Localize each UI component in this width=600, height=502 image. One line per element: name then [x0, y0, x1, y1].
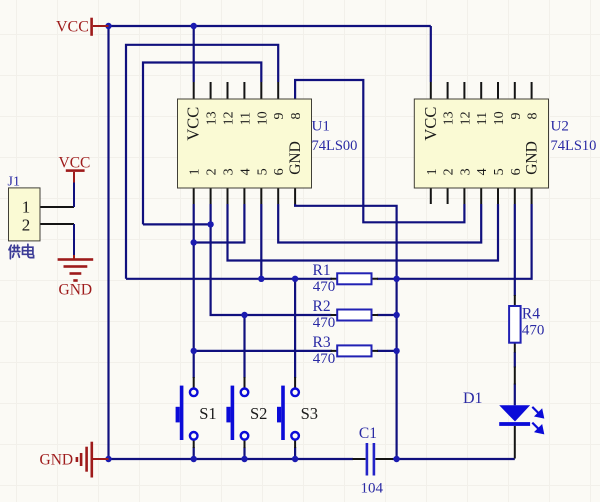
- capacitor C1 leads: [353, 458, 394, 460]
- LED D1 anode lead: [514, 367, 516, 385]
- wire U2 pin6 to R4: [514, 204, 516, 296]
- resistor R3 body: [337, 345, 371, 356]
- svg-text:5: 5: [255, 168, 270, 175]
- node R1 row pin5: [258, 276, 264, 282]
- wire R3 row right: [377, 350, 397, 352]
- svg-text:470: 470: [313, 351, 336, 367]
- wire bottom rail left of C1: [109, 458, 354, 460]
- svg-text:6: 6: [509, 168, 524, 175]
- svg-text:R4: R4: [522, 306, 540, 323]
- IC U2 74LS10 body: [414, 99, 548, 188]
- node R1 row S3: [292, 276, 298, 282]
- svg-text:74LS10: 74LS10: [551, 138, 597, 154]
- node VCC rail / left vertical: [105, 23, 111, 29]
- pushbutton S1: [190, 389, 198, 440]
- U1 top pin stubs: [194, 82, 279, 99]
- svg-text:2: 2: [442, 168, 457, 175]
- R1 leads: [331, 278, 379, 280]
- wire S1 bottom: [193, 447, 195, 459]
- wire pin2 row left: [143, 223, 211, 225]
- U1 pin name texts: [184, 107, 304, 176]
- svg-text:R2: R2: [313, 298, 331, 315]
- LED arrows: [532, 407, 543, 433]
- LED D1 cathode lead: [514, 426, 516, 459]
- svg-text:S3: S3: [301, 404, 318, 423]
- wire R2 row right: [377, 314, 397, 316]
- LED D1: [499, 405, 530, 426]
- svg-text:4: 4: [475, 168, 490, 175]
- svg-text:J1: J1: [8, 175, 20, 190]
- svg-text:1: 1: [188, 168, 203, 175]
- svg-text:GND: GND: [59, 282, 93, 299]
- svg-text:470: 470: [522, 323, 545, 339]
- wire U1 GND to mid column: [295, 204, 397, 459]
- R3 leads: [331, 350, 379, 352]
- node R2 row mid column: [393, 312, 399, 318]
- wire U1 VCC drop: [193, 26, 195, 82]
- svg-text:12: 12: [222, 111, 237, 125]
- S2 stubs: [244, 377, 246, 448]
- node rail / left vertical: [105, 456, 111, 462]
- svg-text:5: 5: [492, 168, 507, 175]
- svg-text:VCC: VCC: [56, 19, 89, 36]
- U1 bottom pin stubs: [194, 188, 295, 204]
- node VCC rail / U1 VCC: [191, 23, 197, 29]
- svg-text:U2: U2: [551, 119, 569, 135]
- U2 pin name texts: [421, 107, 541, 176]
- svg-text:13: 13: [205, 111, 220, 125]
- svg-text:S2: S2: [250, 404, 267, 423]
- svg-text:VCC: VCC: [59, 155, 91, 172]
- label 供电 (hand-drawn): [9, 244, 34, 259]
- R4 leads: [514, 295, 516, 353]
- node R3 row mid column: [393, 348, 399, 354]
- resistor R4 body: [509, 306, 520, 343]
- ground GND bottom-left: [40, 442, 109, 478]
- svg-text:R3: R3: [313, 334, 331, 351]
- svg-text:1: 1: [425, 168, 440, 175]
- svg-text:8: 8: [526, 113, 541, 120]
- wire R1 row left: [126, 278, 332, 280]
- svg-text:11: 11: [238, 112, 253, 125]
- svg-text:74LS00: 74LS00: [312, 138, 358, 154]
- svg-text:R1: R1: [313, 262, 331, 279]
- wire left VCC-to-rail vertical: [107, 26, 109, 459]
- svg-text:D1: D1: [463, 390, 483, 407]
- node pin2 row: [207, 221, 213, 227]
- capacitor C1 plates: [367, 443, 374, 476]
- node R2 row S2: [241, 312, 247, 318]
- wire U1 pin1 column: [193, 204, 195, 378]
- svg-text:470: 470: [313, 279, 336, 295]
- svg-text:4: 4: [238, 168, 253, 175]
- svg-text:1: 1: [22, 198, 31, 217]
- wire R1 row right to U2 GND: [377, 204, 532, 279]
- svg-text:2: 2: [205, 168, 220, 175]
- svg-text:9: 9: [509, 113, 524, 120]
- S3 stubs: [294, 377, 296, 448]
- pushbutton S2: [241, 389, 249, 440]
- svg-text:10: 10: [492, 111, 507, 125]
- svg-text:8: 8: [289, 113, 304, 120]
- svg-text:GND: GND: [40, 452, 74, 469]
- wire R3 row left: [194, 350, 332, 352]
- node R1 row mid column: [393, 276, 399, 282]
- svg-text:2: 2: [22, 216, 31, 235]
- svg-text:U1: U1: [312, 119, 330, 135]
- U2 top pin stubs: [431, 82, 532, 99]
- wire S2 column: [243, 315, 245, 378]
- svg-text:VCC: VCC: [421, 107, 440, 141]
- svg-text:13: 13: [442, 111, 457, 125]
- S1 stubs: [193, 377, 195, 448]
- wire U1 pin3 to U2 pin5: [228, 204, 499, 261]
- node pin1 row: [191, 239, 197, 245]
- node R3 row S1: [191, 348, 197, 354]
- wire S3 column: [294, 279, 296, 378]
- power port VCC at J1: [59, 155, 91, 208]
- svg-text:6: 6: [272, 168, 287, 175]
- svg-text:11: 11: [475, 112, 490, 125]
- LED cathode bar: [499, 422, 530, 426]
- wire U1 pin8 to U2 pin3: [295, 80, 464, 222]
- wire net pin2row to U1 pin10: [143, 63, 261, 225]
- wire bottom rail right of C1: [393, 458, 515, 460]
- wire R4 to LED anode upper: [514, 352, 516, 368]
- resistor R2 body: [337, 310, 371, 321]
- wire U2 VCC drop: [430, 26, 432, 82]
- svg-text:GND: GND: [287, 141, 304, 175]
- node rail / S2: [241, 456, 247, 462]
- R2 leads: [331, 314, 379, 316]
- connector J1 body: [9, 188, 41, 241]
- svg-text:104: 104: [361, 481, 384, 497]
- wire S3 bottom: [294, 447, 296, 459]
- pushbutton S3: [291, 389, 299, 440]
- svg-text:C1: C1: [359, 425, 377, 442]
- node rail / S1: [191, 456, 197, 462]
- node rail / mid column: [393, 456, 399, 462]
- LED triangle: [499, 405, 530, 421]
- wire U1 pin5 drop: [260, 204, 262, 279]
- wire U1 pin6 to U2 pin4: [278, 204, 481, 243]
- J1 pin stubs: [39, 207, 74, 224]
- U2 bottom pin stubs: [431, 188, 532, 204]
- node rail / S3: [292, 456, 298, 462]
- svg-text:9: 9: [272, 113, 287, 120]
- IC U1 74LS00 body: [178, 99, 312, 188]
- wire U1 pin2 column to R2 row: [211, 204, 332, 315]
- wire net R1row to U1 pin9: [126, 45, 278, 279]
- svg-text:470: 470: [313, 315, 336, 331]
- svg-text:3: 3: [458, 168, 473, 175]
- svg-text:GND: GND: [524, 141, 541, 175]
- power port VCC top-left: [56, 18, 109, 36]
- svg-text:12: 12: [458, 111, 473, 125]
- wire U1 pin1 to pin4 row: [194, 204, 245, 243]
- wire VCC rail top: [109, 25, 431, 27]
- svg-text:10: 10: [255, 111, 270, 125]
- svg-text:3: 3: [222, 168, 237, 175]
- resistor R1 body: [337, 273, 371, 284]
- wire LED anode lower: [514, 384, 516, 406]
- svg-text:VCC: VCC: [184, 107, 203, 141]
- wire S2 bottom: [243, 447, 245, 459]
- svg-text:S1: S1: [199, 404, 216, 423]
- ground GND at J1: [58, 224, 94, 299]
